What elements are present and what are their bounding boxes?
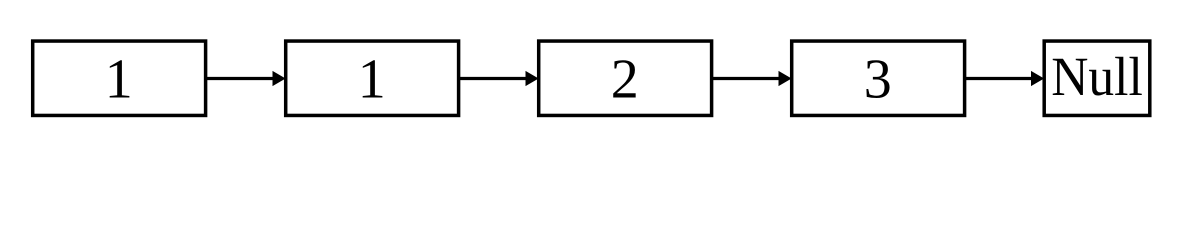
wire arrow 4 shaft <box>964 77 1033 80</box>
node box 1 <box>33 41 206 115</box>
svg-text:1: 1 <box>105 49 133 111</box>
wire arrow 1 shaft <box>205 77 274 80</box>
wire arrow 2 head <box>526 71 539 86</box>
terminator box Null <box>1044 41 1150 115</box>
node box 3 <box>539 41 712 115</box>
svg-text:1: 1 <box>358 49 386 111</box>
svg-text:2: 2 <box>611 49 639 111</box>
node box 2 <box>286 41 459 115</box>
wire arrow 3 head <box>779 71 792 86</box>
wire arrow 3 shaft <box>711 77 780 80</box>
linked list diagram <box>0 0 1185 165</box>
svg-text:3: 3 <box>864 49 892 111</box>
node box 4 <box>792 41 965 115</box>
wire arrow 4 head <box>1031 71 1044 86</box>
wire arrow 2 shaft <box>458 77 527 80</box>
svg-text:Null: Null <box>1051 47 1143 108</box>
wire arrow 1 head <box>273 71 286 86</box>
